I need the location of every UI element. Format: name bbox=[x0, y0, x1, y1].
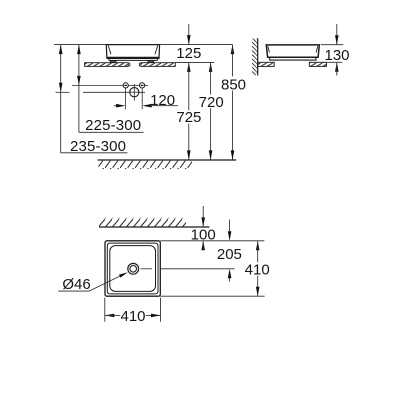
svg-text:850: 850 bbox=[221, 76, 246, 93]
svg-text:205: 205 bbox=[217, 246, 242, 263]
svg-text:120: 120 bbox=[150, 92, 175, 109]
svg-text:Ø46: Ø46 bbox=[62, 276, 90, 293]
svg-text:720: 720 bbox=[199, 94, 224, 111]
svg-text:235-300: 235-300 bbox=[70, 138, 126, 155]
svg-text:410: 410 bbox=[245, 262, 270, 279]
svg-text:410: 410 bbox=[120, 308, 145, 325]
svg-text:125: 125 bbox=[176, 45, 201, 62]
svg-text:130: 130 bbox=[324, 47, 349, 64]
svg-text:225-300: 225-300 bbox=[85, 117, 141, 134]
